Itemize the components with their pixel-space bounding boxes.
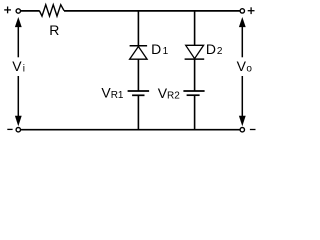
svg-text:V: V	[237, 58, 247, 74]
svg-text:R2: R2	[167, 90, 180, 101]
wire VR2 to bottom rail	[194, 95, 196, 130]
svg-text:i: i	[23, 64, 25, 75]
minus sign output bottom-right	[250, 129, 256, 131]
svg-text:V: V	[12, 58, 22, 74]
wire VR1 to bottom rail	[137, 95, 139, 129]
svg-text:R1: R1	[111, 90, 124, 101]
diode D1	[130, 46, 148, 59]
svg-text:D: D	[206, 41, 216, 57]
battery VR1	[128, 91, 150, 95]
diode D2	[185, 45, 205, 59]
wire top rail to D1	[137, 11, 139, 46]
wire top-left to resistor	[21, 10, 39, 12]
svg-text:1: 1	[163, 46, 169, 57]
svg-text:D: D	[151, 41, 161, 57]
wire D2 to VR2	[194, 59, 196, 91]
Vo down arrow	[241, 76, 243, 117]
terminal top-right	[240, 9, 244, 13]
terminal top-left	[16, 9, 20, 13]
Vi up arrow	[15, 17, 22, 27]
plus sign output top-right	[248, 7, 255, 14]
terminal bottom-right	[240, 128, 244, 132]
plus sign input top-left	[4, 7, 11, 14]
bottom rail wire	[21, 129, 240, 131]
terminal bottom-left	[16, 128, 20, 132]
svg-text:o: o	[246, 64, 252, 75]
resistor R	[39, 5, 64, 16]
battery VR2	[183, 91, 204, 95]
minus sign input bottom-left	[7, 128, 12, 130]
svg-text:R: R	[49, 22, 59, 38]
wire top rail to D2	[194, 11, 196, 45]
Vo up arrow	[239, 17, 246, 27]
wire resistor to top-right terminal	[64, 10, 240, 12]
svg-text:2: 2	[217, 46, 223, 57]
Vi down arrow	[17, 76, 19, 117]
wire D1 to VR1	[137, 59, 139, 91]
